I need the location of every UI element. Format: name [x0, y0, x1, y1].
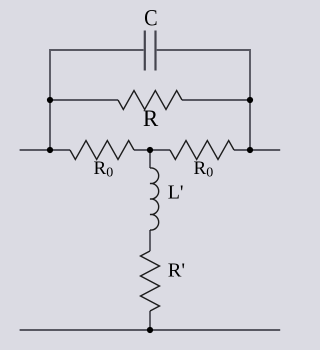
wire middle rail center — [134, 149, 170, 151]
node: bottom rail junction (R' to bottom rail) — [147, 327, 153, 333]
resistor R' — [141, 251, 160, 311]
node: left junction on middle rail — [47, 147, 53, 153]
resistor R0 (right) — [170, 141, 234, 160]
wire R' to bottom rail — [149, 311, 151, 330]
wire inductor to resistor R' — [149, 230, 151, 251]
wire bottom rail — [20, 329, 281, 331]
node: junction of R top rail and right vertical wire — [247, 97, 253, 103]
node: center junction (middle rail to L') — [147, 147, 153, 153]
wire rail2 right — [182, 99, 250, 101]
resistor R — [118, 91, 182, 110]
svg-text:R': R' — [168, 260, 185, 282]
wire node to inductor — [149, 150, 151, 168]
svg-text:C: C — [144, 5, 158, 30]
inductor L' — [150, 168, 159, 230]
svg-text:R: R — [143, 106, 159, 131]
resistor R0 (left) — [70, 141, 134, 160]
wire middle rail left stub — [20, 149, 70, 151]
wire rail2 left — [50, 99, 118, 101]
wire top-left corner: top rail left to left vertical — [50, 50, 144, 150]
svg-text:L': L' — [168, 182, 184, 204]
wire top-right corner: top rail right to right vertical — [157, 50, 250, 150]
node: right junction on middle rail — [247, 147, 253, 153]
capacitor C — [144, 31, 146, 71]
node: junction of R top rail and left vertical wire — [47, 97, 53, 103]
wire middle rail right — [234, 149, 280, 151]
